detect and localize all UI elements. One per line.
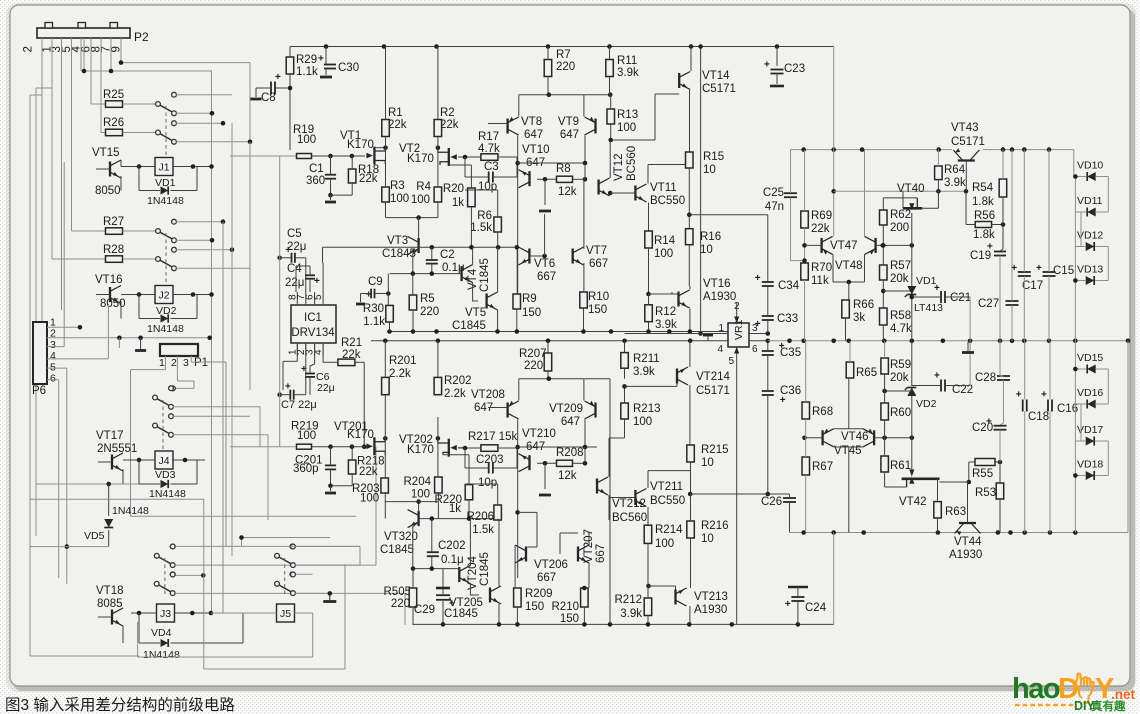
svg-text:R216: R216 (701, 520, 729, 532)
svg-text:R9: R9 (522, 293, 537, 305)
svg-text:A1930: A1930 (949, 549, 982, 561)
svg-text:VT6: VT6 (534, 258, 555, 270)
svg-text:220: 220 (420, 306, 439, 318)
svg-text:+: + (755, 273, 761, 284)
svg-text:LT413: LT413 (914, 302, 943, 314)
svg-text:VT214: VT214 (696, 371, 730, 383)
svg-text:VT3: VT3 (387, 235, 408, 247)
svg-text:C9: C9 (368, 276, 383, 288)
svg-text:VT9: VT9 (558, 116, 579, 128)
svg-text:BC550: BC550 (650, 195, 685, 207)
svg-text:A1930: A1930 (694, 604, 727, 616)
svg-text:R61: R61 (890, 460, 911, 472)
svg-text:BC560: BC560 (612, 512, 647, 524)
svg-text:10p: 10p (478, 477, 497, 489)
svg-text:IC1: IC1 (304, 312, 322, 324)
svg-text:C5: C5 (287, 228, 302, 240)
svg-text:VT48: VT48 (835, 260, 863, 272)
svg-text:VT211: VT211 (650, 481, 683, 493)
svg-text:100: 100 (617, 122, 636, 134)
svg-text:+: + (764, 60, 770, 71)
svg-text:R2: R2 (440, 107, 455, 119)
svg-text:R214: R214 (655, 524, 683, 536)
svg-text:2: 2 (171, 357, 177, 369)
svg-text:3.9k: 3.9k (617, 67, 639, 79)
svg-text:1k: 1k (449, 503, 461, 515)
svg-text:667: 667 (537, 572, 556, 584)
svg-text:VT40: VT40 (897, 183, 925, 195)
svg-text:1.5k: 1.5k (472, 524, 494, 536)
svg-text:R53: R53 (975, 487, 996, 499)
svg-text:C1845: C1845 (479, 258, 491, 292)
svg-text:+: + (986, 417, 992, 428)
svg-text:R202: R202 (444, 375, 472, 387)
svg-text:+: + (314, 276, 320, 287)
svg-text:1.1k: 1.1k (363, 316, 385, 328)
svg-text:R65: R65 (856, 367, 877, 379)
svg-text:VT47: VT47 (830, 240, 858, 252)
svg-text:C1845: C1845 (479, 552, 491, 586)
svg-text:C25: C25 (763, 187, 784, 199)
svg-text:10: 10 (700, 244, 713, 256)
svg-text:VT206: VT206 (534, 559, 568, 571)
svg-text:3.9k: 3.9k (944, 177, 966, 189)
svg-text:P1: P1 (194, 357, 208, 369)
svg-text:667: 667 (537, 271, 556, 283)
svg-text:VT16: VT16 (703, 278, 731, 290)
svg-text:C5171: C5171 (702, 83, 736, 95)
svg-text:C21: C21 (950, 292, 971, 304)
svg-text:C34: C34 (778, 280, 800, 292)
svg-text:C26: C26 (761, 496, 782, 508)
svg-text:+: + (755, 319, 761, 330)
svg-text:1N4148: 1N4148 (147, 195, 184, 207)
svg-text:12k: 12k (558, 186, 577, 198)
svg-text:100: 100 (411, 194, 430, 206)
svg-text:1: 1 (159, 357, 165, 369)
svg-text:C29: C29 (414, 604, 435, 616)
svg-text:5: 5 (50, 361, 56, 373)
svg-text:R209: R209 (525, 588, 553, 600)
svg-text:22k: 22k (388, 119, 407, 131)
svg-text:R28: R28 (103, 244, 124, 256)
svg-text:R206: R206 (467, 511, 495, 523)
svg-text:667: 667 (595, 544, 607, 563)
svg-text:3k: 3k (853, 312, 865, 324)
svg-text:+: + (1016, 390, 1022, 401)
svg-text:C18: C18 (1028, 411, 1049, 423)
svg-text:200: 200 (890, 222, 909, 234)
svg-text:R215: R215 (701, 444, 729, 456)
svg-text:R16: R16 (700, 231, 721, 243)
svg-text:R12: R12 (655, 306, 676, 318)
svg-text:C23: C23 (784, 63, 805, 75)
svg-text:R11: R11 (617, 55, 637, 67)
svg-text:J5: J5 (280, 608, 291, 620)
svg-text:J2: J2 (158, 290, 169, 302)
svg-text:R212: R212 (615, 594, 643, 606)
svg-text:R201: R201 (389, 355, 417, 367)
svg-text:8085: 8085 (97, 598, 123, 610)
svg-text:VT12: VT12 (613, 154, 625, 182)
svg-text:5: 5 (313, 294, 324, 300)
svg-text:R17: R17 (478, 131, 499, 143)
svg-text:BC560: BC560 (626, 146, 638, 181)
svg-text:C5171: C5171 (951, 136, 985, 148)
svg-text:R57: R57 (890, 260, 911, 272)
svg-text:真有趣: 真有趣 (1091, 699, 1126, 713)
svg-text:+: + (1041, 390, 1047, 401)
svg-text:C30: C30 (338, 62, 359, 74)
svg-text:R208: R208 (556, 447, 584, 459)
svg-text:+: + (934, 371, 940, 382)
svg-text:VT7: VT7 (586, 245, 607, 257)
svg-text:K170: K170 (347, 139, 374, 151)
svg-text:R60: R60 (890, 407, 911, 419)
svg-text:R21: R21 (341, 337, 362, 349)
svg-text:VD3: VD3 (155, 469, 176, 481)
svg-text:图3 输入采用差分结构的前级电路: 图3 输入采用差分结构的前级电路 (5, 696, 235, 714)
svg-text:DRV134: DRV134 (291, 327, 335, 339)
svg-text:1N4148: 1N4148 (149, 488, 186, 500)
svg-text:R29: R29 (296, 54, 317, 66)
svg-text:C27: C27 (978, 298, 999, 310)
svg-text:47n: 47n (765, 201, 784, 213)
svg-text:VT213: VT213 (694, 591, 728, 603)
svg-text:C1845: C1845 (452, 320, 486, 332)
svg-text:1N4148: 1N4148 (143, 649, 180, 661)
svg-text:22k: 22k (359, 466, 378, 478)
svg-text:R210: R210 (552, 601, 580, 613)
svg-text:C28: C28 (975, 372, 996, 384)
svg-text:+: + (318, 54, 324, 65)
svg-text:VD18: VD18 (1077, 459, 1103, 471)
svg-text:R54: R54 (972, 182, 994, 194)
svg-text:VT44: VT44 (954, 536, 982, 548)
svg-text:VT18: VT18 (96, 585, 124, 597)
svg-text:C1: C1 (309, 163, 324, 175)
svg-text:R55: R55 (972, 468, 993, 480)
svg-text:10p: 10p (478, 181, 497, 193)
svg-text:20k: 20k (890, 273, 909, 285)
svg-text:100: 100 (633, 416, 652, 428)
svg-text:R505: R505 (384, 586, 412, 598)
svg-text:VT210: VT210 (522, 428, 556, 440)
svg-text:100: 100 (655, 538, 674, 550)
svg-text:R204: R204 (404, 476, 432, 488)
svg-text:C2: C2 (440, 249, 455, 261)
svg-text:VT204: VT204 (467, 556, 479, 590)
svg-text:R27: R27 (103, 216, 124, 228)
svg-text:J1: J1 (158, 162, 169, 174)
svg-text:1.8k: 1.8k (973, 229, 995, 241)
svg-text:1.1k: 1.1k (296, 66, 318, 78)
svg-text:VD11: VD11 (1077, 195, 1103, 207)
svg-text:J4: J4 (158, 455, 169, 467)
svg-text:C4: C4 (287, 263, 302, 275)
svg-text:2.2k: 2.2k (444, 388, 466, 400)
svg-text:3: 3 (50, 339, 56, 351)
svg-text:C3: C3 (484, 161, 499, 173)
svg-text:.net: .net (1111, 687, 1136, 702)
svg-text:10: 10 (701, 457, 714, 469)
svg-text:R3: R3 (390, 180, 405, 192)
svg-text:R217 15k: R217 15k (468, 431, 517, 443)
svg-text:C203: C203 (476, 454, 504, 466)
svg-text:+: + (449, 599, 455, 610)
svg-text:+: + (1011, 263, 1017, 274)
svg-text:4: 4 (50, 350, 56, 362)
svg-text:22k: 22k (811, 223, 830, 235)
svg-text:J3: J3 (160, 608, 171, 620)
svg-text:12k: 12k (558, 470, 577, 482)
svg-text:+: + (779, 341, 785, 352)
svg-text:P2: P2 (134, 30, 149, 44)
svg-text:150: 150 (525, 601, 544, 613)
svg-text:R66: R66 (853, 299, 874, 311)
svg-text:647: 647 (561, 416, 580, 428)
svg-text:+: + (987, 242, 993, 253)
svg-text:VD4: VD4 (151, 627, 172, 639)
svg-text:VD5: VD5 (84, 530, 105, 542)
svg-text:VR1: VR1 (733, 319, 745, 340)
svg-text:R70: R70 (811, 262, 832, 274)
svg-text:VD2: VD2 (156, 305, 177, 317)
svg-text:360p: 360p (293, 463, 319, 475)
svg-text:VT5: VT5 (465, 307, 486, 319)
svg-text:10: 10 (701, 533, 714, 545)
svg-text:R58: R58 (890, 310, 911, 322)
svg-text:+: + (366, 290, 372, 301)
svg-text:6: 6 (50, 373, 56, 385)
svg-text:100: 100 (411, 489, 430, 501)
svg-text:hao: hao (1012, 673, 1060, 705)
svg-text:VT10: VT10 (522, 144, 550, 156)
svg-text:R25: R25 (103, 89, 124, 101)
svg-text:R62: R62 (890, 209, 911, 221)
svg-text:2.2k: 2.2k (389, 368, 411, 380)
svg-text:+: + (285, 245, 291, 256)
svg-text:220: 220 (524, 360, 543, 372)
svg-text:22μ: 22μ (317, 382, 335, 394)
svg-text:C1845: C1845 (444, 608, 478, 620)
svg-text:1: 1 (718, 323, 724, 334)
svg-text:R56: R56 (974, 210, 995, 222)
svg-text:R63: R63 (945, 506, 966, 518)
svg-text:R20: R20 (443, 183, 464, 195)
svg-text:R68: R68 (812, 406, 833, 418)
svg-text:22k: 22k (440, 119, 459, 131)
svg-text:1.8k: 1.8k (972, 196, 994, 208)
svg-text:R64: R64 (944, 164, 966, 176)
svg-text:R1: R1 (388, 107, 403, 119)
svg-text:VD1: VD1 (155, 177, 176, 189)
svg-text:R211: R211 (633, 353, 660, 365)
svg-text:+: + (1036, 263, 1042, 274)
svg-text:C7 22μ: C7 22μ (281, 399, 317, 411)
svg-text:3.9k: 3.9k (655, 319, 677, 331)
svg-text:VT209: VT209 (549, 403, 583, 415)
svg-text:150: 150 (560, 613, 579, 625)
svg-text:+: + (934, 283, 940, 294)
svg-text:C15: C15 (1053, 265, 1074, 277)
svg-text:8050: 8050 (95, 185, 121, 197)
svg-text:R13: R13 (617, 109, 638, 121)
svg-text:22k: 22k (359, 173, 378, 185)
svg-text:VT16: VT16 (95, 274, 123, 286)
svg-text:220: 220 (556, 61, 575, 73)
svg-text:667: 667 (589, 258, 608, 270)
svg-text:360: 360 (306, 175, 325, 187)
svg-text:4.7k: 4.7k (890, 323, 912, 335)
svg-text:C1845: C1845 (380, 544, 414, 556)
svg-text:C8: C8 (261, 92, 276, 104)
svg-text:C24: C24 (805, 602, 827, 614)
svg-text:22μ: 22μ (285, 277, 304, 289)
svg-text:4: 4 (717, 344, 723, 355)
svg-text:150: 150 (588, 304, 607, 316)
svg-text:K170: K170 (347, 429, 374, 441)
svg-text:+: + (285, 382, 291, 393)
svg-text:R30: R30 (363, 303, 384, 315)
svg-text:100: 100 (360, 493, 379, 505)
svg-text:2: 2 (23, 46, 35, 52)
svg-text:1N4148: 1N4148 (147, 323, 184, 335)
svg-text:R207: R207 (519, 348, 547, 360)
svg-text:A1930: A1930 (703, 291, 736, 303)
svg-text:VT15: VT15 (92, 147, 120, 159)
svg-text:100: 100 (297, 134, 316, 146)
svg-text:1k: 1k (452, 197, 464, 209)
svg-text:+: + (275, 72, 281, 83)
svg-text:R5: R5 (420, 293, 435, 305)
svg-text:647: 647 (560, 129, 579, 141)
svg-text:C202: C202 (438, 540, 466, 552)
svg-text:VT17: VT17 (96, 430, 124, 442)
svg-text:R7: R7 (556, 49, 571, 61)
svg-text:R67: R67 (812, 461, 833, 473)
svg-text:3: 3 (183, 357, 189, 369)
svg-text:VT46: VT46 (841, 431, 869, 443)
svg-text:150: 150 (522, 307, 541, 319)
svg-text:P6: P6 (32, 385, 46, 397)
svg-text:K170: K170 (407, 153, 434, 165)
svg-text:VD16: VD16 (1077, 387, 1103, 399)
svg-text:1.5k: 1.5k (470, 222, 492, 234)
svg-text:R213: R213 (633, 403, 661, 415)
svg-text:R8: R8 (556, 163, 571, 175)
svg-text:VT11: VT11 (650, 182, 677, 194)
svg-text:2N5551: 2N5551 (97, 443, 137, 455)
svg-text:C33: C33 (777, 313, 798, 325)
svg-text:647: 647 (524, 129, 543, 141)
svg-text:BC550: BC550 (650, 495, 685, 507)
svg-text:R4: R4 (416, 181, 431, 193)
svg-text:20k: 20k (890, 372, 909, 384)
svg-text:3.9k: 3.9k (633, 366, 655, 378)
svg-text:VD13: VD13 (1077, 264, 1103, 276)
svg-text:VT14: VT14 (702, 70, 730, 82)
svg-text:1: 1 (50, 317, 56, 329)
svg-text:R14: R14 (654, 235, 676, 247)
svg-text:1N4148: 1N4148 (112, 505, 149, 517)
svg-text:VT8: VT8 (521, 116, 542, 128)
svg-text:VD2: VD2 (916, 398, 937, 410)
svg-text:C1845: C1845 (382, 248, 416, 260)
svg-text:VT42: VT42 (899, 496, 927, 508)
svg-text:VT208: VT208 (471, 389, 505, 401)
svg-text:K170: K170 (407, 444, 434, 456)
svg-text:R26: R26 (103, 117, 124, 129)
svg-text:C5171: C5171 (696, 385, 730, 397)
svg-text:R10: R10 (588, 291, 609, 303)
svg-text:6: 6 (752, 344, 758, 355)
svg-text:220: 220 (391, 598, 410, 610)
svg-text:5: 5 (728, 356, 734, 367)
svg-text:100: 100 (654, 248, 673, 260)
svg-text:VD15: VD15 (1077, 352, 1103, 364)
svg-text:100: 100 (390, 193, 409, 205)
svg-text:R15: R15 (703, 151, 724, 163)
svg-text:11k: 11k (811, 275, 829, 287)
svg-text:+: + (785, 599, 791, 610)
svg-text:R69: R69 (811, 210, 832, 222)
svg-text:0.1μ: 0.1μ (441, 554, 464, 566)
svg-text:+: + (780, 395, 786, 406)
svg-text:R59: R59 (890, 359, 911, 371)
svg-text:VD10: VD10 (1077, 160, 1103, 172)
svg-text:R6: R6 (477, 210, 492, 222)
svg-text:C17: C17 (1022, 280, 1043, 292)
svg-text:10: 10 (703, 164, 716, 176)
svg-text:3.9k: 3.9k (620, 608, 642, 620)
svg-text:100: 100 (297, 430, 316, 442)
svg-text:VT43: VT43 (951, 122, 979, 134)
